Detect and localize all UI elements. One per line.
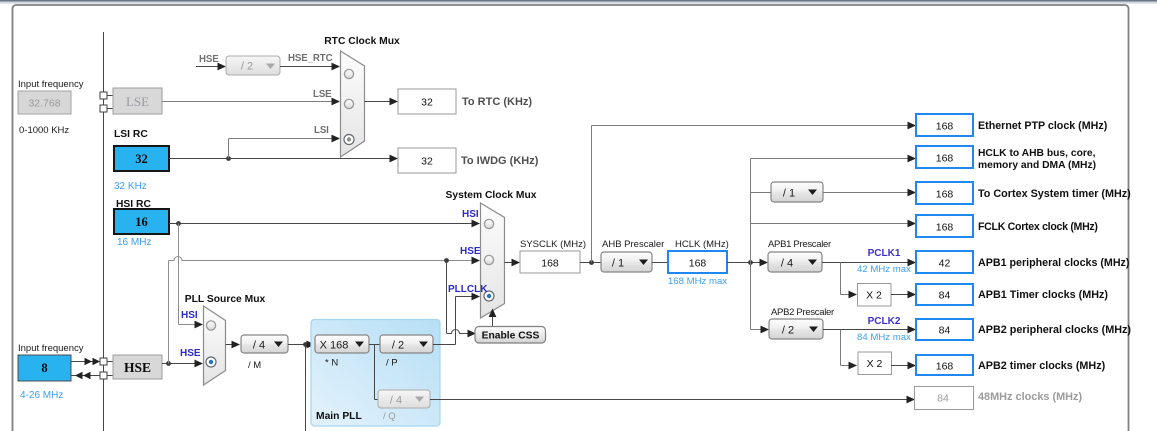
svg-text:APB2 Prescaler: APB2 Prescaler bbox=[771, 307, 834, 318]
arrow pair left bbox=[75, 372, 83, 380]
arrow into RTC mux LSE bbox=[332, 98, 341, 106]
svg-text:32.768: 32.768 bbox=[28, 98, 60, 110]
dropdown AHB /1 bbox=[601, 252, 652, 272]
wire: HSE pin in bbox=[71, 361, 113, 363]
svg-text:APB1 peripheral clocks (MHz): APB1 peripheral clocks (MHz) bbox=[978, 257, 1130, 269]
dropdown /2 (P divider) bbox=[380, 335, 433, 353]
wire: FCLK line bbox=[751, 223, 909, 225]
box: X2 APB1 bbox=[858, 284, 892, 307]
svg-text:32: 32 bbox=[135, 152, 148, 166]
wire: LSE pin link bottom bbox=[107, 108, 113, 110]
svg-text:/ Q: / Q bbox=[383, 411, 396, 422]
wire: HCLK out bbox=[727, 262, 760, 264]
wire: HSE out to PLL mux bbox=[162, 363, 195, 365]
wire: ethernet ptp line bbox=[592, 125, 909, 127]
dropdown X 168 (N multiplier) bbox=[315, 335, 369, 353]
arrow up into system mux bbox=[489, 309, 497, 318]
svg-text:16 MHz: 16 MHz bbox=[117, 237, 151, 248]
arrow into IWDG box bbox=[390, 155, 399, 163]
radio HSE (selected) bbox=[206, 357, 216, 367]
svg-text:APB2 peripheral clocks (MHz): APB2 peripheral clocks (MHz) bbox=[978, 324, 1131, 336]
svg-text:To RTC (KHz): To RTC (KHz) bbox=[462, 96, 532, 108]
arrow into cortex timer box bbox=[908, 189, 917, 197]
svg-text:RTC Clock Mux: RTC Clock Mux bbox=[324, 36, 400, 47]
wire: HCLK riser bbox=[750, 159, 752, 330]
svg-text:Input frequency: Input frequency bbox=[18, 343, 84, 354]
junction LSI bbox=[226, 156, 231, 161]
wire: LSI to RTC mux bbox=[229, 138, 333, 140]
svg-text:X 2: X 2 bbox=[866, 290, 882, 302]
wire: /M to X168 bbox=[288, 344, 307, 346]
arrow into /M bbox=[232, 341, 241, 349]
wire: CSS riser bbox=[446, 261, 448, 334]
svg-text:32 KHz: 32 KHz bbox=[114, 181, 147, 192]
radio HSE_RTC (off) bbox=[344, 69, 353, 78]
wire: LSE pin link top bbox=[107, 95, 113, 97]
radio LSE (off) bbox=[344, 99, 353, 108]
svg-text:Main PLL: Main PLL bbox=[316, 411, 362, 422]
svg-text:168: 168 bbox=[936, 222, 954, 234]
pin square OSC32_IN bbox=[100, 92, 107, 99]
wire: PLL mux output to /M bbox=[226, 344, 233, 346]
svg-text:84: 84 bbox=[937, 393, 949, 405]
mux: PLL source mux bbox=[204, 306, 226, 385]
oscillator HSE bbox=[113, 355, 162, 379]
box: APB1 timer 84 bbox=[916, 284, 973, 305]
svg-text:168: 168 bbox=[936, 121, 954, 133]
arrow into X168 bbox=[307, 341, 316, 349]
dropdown cortex /1 bbox=[771, 182, 823, 202]
svg-text:memory and DMA (MHz): memory and DMA (MHz) bbox=[978, 160, 1096, 171]
box: X2 APB2 bbox=[858, 352, 892, 375]
svg-text:LSI RC: LSI RC bbox=[114, 129, 148, 140]
wire: PCLK2 line bbox=[823, 329, 908, 331]
box: HCLK 168 (blue) bbox=[668, 251, 727, 273]
panel: Main PLL bbox=[311, 320, 440, 427]
svg-text:LSI: LSI bbox=[314, 125, 329, 136]
wire: RTC mux output bbox=[365, 101, 391, 103]
wire: 48MHz line from PLL Q bbox=[430, 399, 907, 401]
wire: ethernet riser bbox=[591, 126, 593, 263]
arrow into Enable CSS bbox=[468, 330, 477, 338]
wire: N to P bbox=[369, 344, 380, 346]
button: Enable CSS bbox=[475, 327, 546, 344]
wire: HSI riser to PLL mux bbox=[178, 224, 180, 325]
svg-text:0-1000 KHz: 0-1000 KHz bbox=[19, 125, 69, 136]
wire: CSS up arrow line bbox=[492, 311, 494, 327]
svg-text:/ P: / P bbox=[386, 358, 398, 369]
mux: system clock mux bbox=[481, 203, 505, 318]
dropdown APB1 /4 bbox=[768, 252, 822, 272]
wire: PCLK1 line bbox=[822, 262, 908, 264]
svg-text:HSE_RTC: HSE_RTC bbox=[288, 53, 333, 64]
input box 32.768 (disabled) bbox=[18, 91, 71, 114]
svg-text:System Clock Mux: System Clock Mux bbox=[446, 190, 537, 201]
arrow into RTC mux LSI bbox=[332, 135, 341, 143]
pin square OSC_OUT bbox=[100, 372, 107, 379]
wire: APB1 timer line bbox=[891, 294, 908, 296]
svg-text:APB1 Prescaler: APB1 Prescaler bbox=[768, 239, 831, 250]
svg-text:X 168: X 168 bbox=[320, 340, 349, 352]
arrow into system clock mux HSI bbox=[472, 220, 481, 228]
radio HSI (off) bbox=[206, 321, 215, 330]
arrow into APB1 peripheral box bbox=[908, 259, 917, 267]
arrow into APB2 timer box bbox=[908, 362, 917, 370]
arrow into To RTC box bbox=[390, 98, 399, 106]
svg-text:HSE: HSE bbox=[199, 54, 219, 65]
junction CSS branch bbox=[444, 258, 449, 263]
arrow into 48MHz box bbox=[907, 396, 916, 404]
svg-text:HSI: HSI bbox=[462, 209, 479, 220]
wire: HSE_RTC to RTC mux bbox=[280, 66, 332, 68]
wire: LSI to IWDG bbox=[169, 158, 390, 160]
svg-text:168 MHz max: 168 MHz max bbox=[668, 276, 727, 287]
wire: N-Q riser bbox=[374, 345, 376, 400]
wire: AHB to HCLK bbox=[652, 262, 668, 264]
svg-text:AHB Prescaler: AHB Prescaler bbox=[602, 239, 664, 250]
box: Cortex timer 168 bbox=[916, 182, 973, 204]
svg-text:84: 84 bbox=[939, 290, 951, 302]
svg-text:32: 32 bbox=[421, 97, 433, 109]
wire: into APB2 X2 bbox=[841, 365, 851, 367]
oscillator LSE (disabled) bbox=[113, 88, 162, 114]
input box 8 (HSE input) bbox=[18, 355, 71, 381]
junction after /M bbox=[303, 342, 308, 347]
svg-text:To Cortex System timer (MHz): To Cortex System timer (MHz) bbox=[978, 188, 1131, 200]
svg-text:HCLK (MHz): HCLK (MHz) bbox=[675, 239, 729, 250]
svg-text:Input frequency: Input frequency bbox=[18, 79, 84, 90]
box: HCLK AHB 168 bbox=[916, 146, 973, 168]
svg-text:/ 1: / 1 bbox=[612, 258, 624, 270]
svg-text:PCLK1: PCLK1 bbox=[868, 248, 901, 259]
junction HCLK distribution bbox=[748, 260, 753, 265]
wire: P output bbox=[433, 344, 456, 346]
wire: SYSCLK to AHB prescaler bbox=[580, 262, 601, 264]
label: HCLK to AHB bus core memory and DMA bbox=[978, 148, 1096, 171]
junction ethernet branch bbox=[589, 260, 594, 265]
svg-text:PCLK2: PCLK2 bbox=[868, 316, 901, 327]
svg-text:HSE: HSE bbox=[180, 348, 201, 359]
svg-text:Enable CSS: Enable CSS bbox=[482, 331, 540, 342]
arrow pair right bbox=[85, 358, 93, 366]
svg-text:/ 2: / 2 bbox=[782, 325, 794, 337]
svg-text:SYSCLK (MHz): SYSCLK (MHz) bbox=[520, 239, 586, 250]
svg-text:42 MHz max: 42 MHz max bbox=[857, 264, 911, 275]
svg-text:/ 2: / 2 bbox=[392, 340, 404, 352]
svg-text:/ 4: / 4 bbox=[390, 395, 402, 407]
svg-text:168: 168 bbox=[936, 153, 954, 165]
svg-text:/ 1: / 1 bbox=[783, 188, 795, 200]
wire: APB1 timer drop bbox=[840, 263, 842, 295]
svg-text:* N: * N bbox=[325, 358, 338, 369]
wire: into APB2 prescaler bbox=[751, 329, 762, 331]
top splitter strip bbox=[0, 0, 1157, 1]
arrow into APB2 X2 bbox=[849, 362, 858, 370]
radio HSE (off) bbox=[484, 255, 493, 264]
box: Ethernet PTP 168 bbox=[916, 114, 973, 136]
mux: RTC clock mux bbox=[341, 51, 365, 157]
arrow into SYSCLK box bbox=[512, 259, 521, 267]
svg-text:HSE: HSE bbox=[124, 360, 151, 375]
svg-text:APB1 Timer clocks (MHz): APB1 Timer clocks (MHz) bbox=[978, 289, 1108, 301]
svg-text:PLL Source Mux: PLL Source Mux bbox=[185, 294, 266, 305]
wire: APB2 timer line bbox=[891, 365, 908, 367]
wire: LSE to RTC mux bbox=[162, 101, 332, 103]
svg-text:LSE: LSE bbox=[313, 89, 332, 100]
wire: PLLCLK riser bbox=[455, 297, 457, 345]
arrow into APB2 prescaler bbox=[761, 326, 770, 334]
arrow into APB2 peripheral box bbox=[908, 326, 917, 334]
radio LSI (selected) bbox=[344, 135, 354, 145]
node: oscillator pin bus bbox=[103, 32, 105, 431]
box: 48MHz clocks 84 (disabled) bbox=[915, 387, 974, 410]
svg-text:84 MHz max: 84 MHz max bbox=[857, 332, 911, 343]
svg-text:/ M: / M bbox=[248, 360, 261, 371]
arrow into APB1 prescaler bbox=[760, 259, 769, 267]
svg-text:32: 32 bbox=[421, 156, 433, 168]
svg-text:HSI: HSI bbox=[181, 310, 198, 321]
svg-text:48MHz clocks (MHz): 48MHz clocks (MHz) bbox=[978, 391, 1082, 403]
arrow into PLL mux HSI bbox=[195, 321, 204, 329]
pin square OSC32_OUT bbox=[100, 105, 107, 112]
svg-text:168: 168 bbox=[936, 189, 954, 201]
arrow into system clock mux HSE bbox=[472, 257, 481, 265]
svg-text:16: 16 bbox=[135, 215, 148, 229]
arrow into ethernet box bbox=[908, 122, 917, 130]
junction HSE bbox=[166, 361, 171, 366]
wire: into APB1 X2 bbox=[841, 294, 851, 296]
box: APB2 peripheral 84 bbox=[916, 319, 973, 340]
wire: HSI into PLL mux bbox=[179, 324, 196, 326]
svg-text:8: 8 bbox=[41, 361, 47, 375]
svg-text:/ 4: / 4 bbox=[781, 258, 793, 270]
box: FCLK 168 bbox=[916, 215, 973, 237]
radio PLLCLK (selected) bbox=[484, 291, 494, 301]
dropdown /4 (Q divider, disabled) bbox=[378, 390, 430, 408]
svg-text:HSE: HSE bbox=[460, 246, 481, 257]
svg-text:84: 84 bbox=[939, 325, 951, 337]
arrow into RTC mux HSE_RTC bbox=[332, 63, 341, 71]
svg-text:FCLK Cortex clock (MHz): FCLK Cortex clock (MHz) bbox=[978, 221, 1098, 233]
box: To RTC value 32 bbox=[398, 89, 456, 114]
wire: HSE to system clock mux with hop over HSI riser bbox=[169, 257, 473, 261]
svg-text:/ 2: / 2 bbox=[241, 61, 253, 73]
svg-text:Ethernet PTP clock (MHz): Ethernet PTP clock (MHz) bbox=[978, 120, 1108, 132]
wire: to cortex prescaler bbox=[751, 192, 772, 194]
box: To IWDG value 32 bbox=[398, 148, 456, 173]
svg-text:X 2: X 2 bbox=[867, 358, 883, 370]
wire: PLLCLK into system mux bbox=[456, 296, 473, 298]
wire: HSE to /2 divider bbox=[196, 66, 218, 68]
wire: cortex timer line bbox=[823, 192, 908, 194]
dropdown APB2 /2 bbox=[769, 319, 823, 339]
box: APB1 peripheral 42 bbox=[916, 251, 973, 273]
arrow into HCLK AHB box bbox=[908, 155, 917, 163]
wire: riser down to PLLI2S bbox=[305, 345, 307, 431]
arrow into PLL mux HSE bbox=[195, 360, 204, 368]
dropdown /4 (M divider) bbox=[241, 335, 288, 353]
svg-text:LSE: LSE bbox=[126, 94, 149, 109]
wire: CSS into button with hop over PLLCLK riser bbox=[447, 330, 469, 334]
svg-text:APB2 timer clocks (MHz): APB2 timer clocks (MHz) bbox=[978, 360, 1106, 372]
oscillator HSI RC 16 bbox=[114, 209, 169, 234]
junction HSI bbox=[176, 221, 181, 226]
arrow into system clock mux PLLCLK bbox=[472, 293, 481, 301]
svg-text:PLLCLK: PLLCLK bbox=[448, 284, 488, 295]
svg-text:To IWDG (KHz): To IWDG (KHz) bbox=[461, 155, 539, 167]
wire: HSE pin out bbox=[71, 375, 113, 377]
svg-text:42: 42 bbox=[939, 258, 951, 270]
arrow into APB1 X2 bbox=[849, 291, 858, 299]
svg-text:4-26 MHz: 4-26 MHz bbox=[20, 390, 63, 401]
wire: APB2 timer drop bbox=[840, 330, 842, 366]
wire: HSE riser bbox=[168, 261, 170, 364]
wire: into Q bbox=[375, 399, 379, 401]
svg-text:168: 168 bbox=[936, 361, 954, 373]
svg-text:168: 168 bbox=[541, 258, 559, 270]
wire: LSI riser bbox=[228, 139, 230, 159]
box: APB2 timer 168 bbox=[916, 355, 973, 375]
wire: SYSCLK output bbox=[505, 262, 513, 264]
wire: HCLK to AHB bus line bbox=[751, 158, 909, 160]
arrow into APB1 timer box bbox=[908, 291, 917, 299]
svg-text:168: 168 bbox=[689, 258, 707, 270]
oscillator LSI RC 32 bbox=[114, 146, 169, 171]
svg-text:/ 4: / 4 bbox=[253, 340, 265, 352]
radio HSI (off) bbox=[484, 219, 493, 228]
arrow into FCLK box bbox=[908, 220, 917, 228]
wire: HSI to system clock mux bbox=[169, 223, 472, 225]
divider /2 (disabled dropdown) bbox=[226, 56, 280, 75]
pin square OSC_IN bbox=[100, 358, 107, 365]
arrow into /2 divider bbox=[218, 63, 227, 71]
svg-text:HCLK to AHB bus, core,: HCLK to AHB bus, core, bbox=[978, 148, 1096, 159]
box: SYSCLK 168 bbox=[520, 251, 580, 273]
